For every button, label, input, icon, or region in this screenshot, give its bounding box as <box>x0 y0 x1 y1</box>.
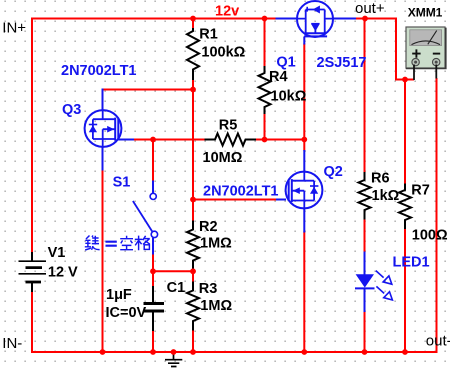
wire 12v rail top <box>32 18 276 20</box>
wire Q1 gate pin <box>303 37 305 45</box>
resistor R4 10kOhm <box>259 66 271 114</box>
wire 12v to R4 <box>264 19 266 67</box>
wire R1 bottom <box>192 80 194 90</box>
svg-text:2N7002LT1: 2N7002LT1 <box>61 63 137 79</box>
svg-text:V1: V1 <box>48 245 66 261</box>
node rail/R3 <box>190 349 196 355</box>
wire XMM1 minus to out- <box>436 78 438 353</box>
node rail/LED1 <box>362 349 368 355</box>
resistor R7 100Ohm <box>399 184 411 230</box>
svg-text:IN-: IN- <box>2 335 22 352</box>
wire R2 bottom R3 top <box>192 269 194 282</box>
transistor Q2 2N7002LT1 <box>286 172 323 209</box>
transistor Q1 2SJ517 <box>297 1 333 37</box>
transistor Q3 2N7002LT1 <box>85 110 122 147</box>
svg-text:S1: S1 <box>113 174 131 190</box>
node Q2 gate/R2 <box>190 197 196 203</box>
svg-text:12 V: 12 V <box>48 265 78 281</box>
wire Q1 right pin <box>333 18 357 20</box>
svg-text:10MΩ: 10MΩ <box>203 150 243 166</box>
wire Q3 gate pin <box>118 139 135 141</box>
svg-text:R4: R4 <box>269 69 288 85</box>
svg-text:2SJ517: 2SJ517 <box>317 55 367 71</box>
svg-text:out+: out+ <box>355 0 385 17</box>
ground <box>165 352 182 367</box>
svg-text:2N7002LT1: 2N7002LT1 <box>203 183 279 199</box>
wire to R2 top <box>192 200 194 222</box>
svg-text:Q2: Q2 <box>324 164 343 180</box>
node rail/ground <box>171 349 177 355</box>
wire S1 top drop <box>152 139 154 182</box>
svg-text:R5: R5 <box>219 118 238 134</box>
wire S1 upper pin <box>152 181 154 194</box>
wire R3 bottom to rail <box>192 330 194 353</box>
svg-text:R6: R6 <box>371 171 390 187</box>
svg-text:10kΩ: 10kΩ <box>271 89 307 105</box>
wire Q1 left pin <box>276 18 298 20</box>
wire Q3 source to rail <box>102 170 104 354</box>
svg-text:100Ω: 100Ω <box>412 228 448 244</box>
wire node A vertical to Q2 gate node <box>192 89 194 201</box>
wire R5 right to node <box>256 139 306 141</box>
wire Q2 source pin <box>303 208 305 233</box>
wire C1 bottom to rail <box>152 331 154 354</box>
wire Q3 source pin <box>102 147 104 171</box>
svg-text:C1: C1 <box>167 280 186 296</box>
svg-text:1MΩ: 1MΩ <box>200 298 232 314</box>
resistor R5 10MOhm <box>205 134 257 146</box>
wire LED1 anode pin <box>364 252 366 275</box>
wire node to R7 <box>404 80 406 185</box>
wire out+ to R6 <box>364 19 366 173</box>
svg-text:Q1: Q1 <box>276 55 295 71</box>
svg-text:R7: R7 <box>411 183 430 199</box>
switch S1 <box>150 193 156 199</box>
wire Q3 drain to R1 node <box>103 89 195 91</box>
wire out+ segment <box>356 18 396 20</box>
wire 12v to R1 <box>192 19 194 30</box>
node S1/C1 <box>150 268 156 274</box>
svg-text:LED1: LED1 <box>393 254 430 270</box>
resistor R3 1MOhm <box>187 282 199 331</box>
node rail/Q2 source <box>301 349 307 355</box>
wire XMM1 minus stub <box>435 65 437 79</box>
wire LED1 to rail <box>364 311 366 353</box>
svg-text:IC=0V: IC=0V <box>106 305 147 321</box>
node out+ <box>362 16 368 22</box>
svg-text:1μF: 1μF <box>106 287 132 303</box>
svg-text:IN+: IN+ <box>2 20 26 37</box>
wire Q2 source to rail <box>303 232 305 354</box>
svg-text:R1: R1 <box>199 27 218 43</box>
wire Q2 gate pin <box>276 199 286 201</box>
node rail/R7 <box>402 349 408 355</box>
svg-text:R3: R3 <box>199 281 218 297</box>
resistor R6 1kOhm <box>359 172 371 220</box>
wire Q1 gate to Q2 drain <box>303 44 305 151</box>
wire XMM1 plus stub <box>413 65 415 81</box>
wire Q2 drain pin <box>303 150 305 172</box>
resistor R2 1MOhm <box>187 221 199 270</box>
wire R4 bottom to node <box>264 114 266 141</box>
battery V1 12V <box>31 252 33 292</box>
node 12v/R4 <box>262 16 268 22</box>
svg-text:Q3: Q3 <box>62 102 81 118</box>
svg-text:12v: 12v <box>215 3 239 19</box>
wire R6 to LED1 <box>364 219 366 253</box>
svg-text:XMM1: XMM1 <box>408 5 443 19</box>
wire bottom rail (IN- / out-) <box>31 351 438 353</box>
wire to C1 top <box>152 270 154 286</box>
node rail/C1 <box>150 349 156 355</box>
capacitor C1 1uF <box>152 286 154 302</box>
LED1 light arrows <box>376 271 393 300</box>
node Q1 gate/Q2 drain <box>301 137 307 143</box>
svg-text:1kΩ: 1kΩ <box>372 188 400 204</box>
wire left rail lower (V1 to IN-) <box>31 292 33 354</box>
svg-text:1MΩ: 1MΩ <box>200 236 232 252</box>
wire S1 bottom to R2/R3 node <box>152 254 194 272</box>
node Q3 gate/S1 <box>150 137 156 143</box>
svg-text:100kΩ: 100kΩ <box>201 44 245 60</box>
node R2/R3 <box>190 268 196 274</box>
wire Q3 drain pin <box>102 89 104 111</box>
wire Q2 gate <box>193 199 276 201</box>
svg-text:out-: out- <box>426 332 450 349</box>
svg-text:R2: R2 <box>199 219 218 235</box>
node 12v/R1 <box>190 16 196 22</box>
wire to XMM1 plus <box>395 18 414 80</box>
wire LED1 cathode pin <box>364 288 366 312</box>
wire S1 lower pin <box>152 238 154 255</box>
node R1/Q3 drain <box>190 87 196 93</box>
node rail/Q3 source <box>100 349 106 355</box>
LED LED1 <box>356 274 374 287</box>
multimeter XMM1 <box>406 27 446 69</box>
wire Q3 gate to R5 <box>133 139 205 141</box>
wire R7 to rail <box>404 229 406 354</box>
label S1 key annotation (jian = kongge) <box>85 236 150 251</box>
resistor R1 100kOhm <box>187 28 199 80</box>
wire left rail upper (IN+ to V1) <box>31 18 33 253</box>
node R4/R5 <box>262 137 268 143</box>
node XMM1+/R7 <box>402 77 408 83</box>
